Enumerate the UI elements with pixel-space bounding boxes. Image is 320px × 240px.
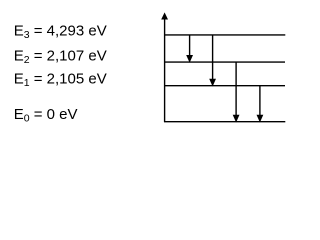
svg-text:E1 = 2,105 eV: E1 = 2,105 eV — [14, 71, 107, 89]
transition arrow E3 to E1 head — [209, 79, 216, 87]
level line E1 — [164, 85, 285, 87]
svg-text:E3 = 4,293 eV: E3 = 4,293 eV — [14, 23, 107, 41]
svg-text:E0 = 0 eV: E0 = 0 eV — [14, 106, 78, 124]
level line E0 — [164, 121, 285, 123]
transition arrow E3 to E2 head — [186, 55, 193, 63]
transition arrow E2 to E0 shaft — [235, 62, 237, 116]
level line E2 — [164, 61, 285, 63]
energy axis vertical line — [164, 18, 166, 122]
transition arrow E3 to E2 shaft — [189, 35, 191, 57]
svg-text:E2 = 2,107 eV: E2 = 2,107 eV — [14, 48, 107, 66]
transition arrow E3 to E1 shaft — [212, 35, 214, 80]
transition arrow E2 to E0 head — [233, 115, 240, 123]
level line E3 — [164, 34, 285, 36]
transition arrow E1 to E0 head — [257, 115, 264, 123]
energy axis arrowhead (up) — [161, 12, 168, 19]
transition arrow E1 to E0 shaft — [259, 86, 261, 117]
